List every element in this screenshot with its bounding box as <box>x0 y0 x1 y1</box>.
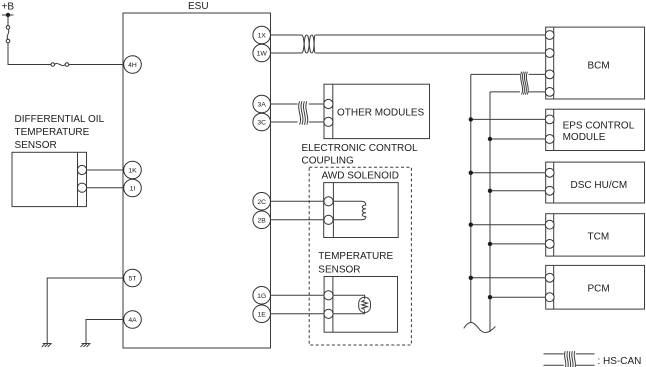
temperature sensor box <box>324 277 397 333</box>
EPS pin 1 <box>545 115 554 124</box>
wire 3C to other modules <box>271 121 298 123</box>
svg-text:1G: 1G <box>257 293 266 300</box>
DSC HU/CM box <box>546 162 645 203</box>
wire 2C to AWD solenoid <box>271 200 324 202</box>
sensor pin (to 1K) <box>77 165 86 174</box>
BCM pin 3 <box>545 70 554 79</box>
ground G2 <box>81 344 91 348</box>
HS-CAN bus line 2 <box>489 92 491 332</box>
wire fuse to pin 4H <box>69 64 124 66</box>
pin 5T <box>124 269 142 287</box>
DIFFERENTIAL OIL TEMPERATURE SENSOR label <box>15 114 105 151</box>
junction dot bus1/PCM <box>469 276 473 280</box>
temperature sensor pin (1G) <box>324 291 333 300</box>
pin 4H <box>124 56 142 74</box>
twisted pair T3 <box>521 72 529 95</box>
wire 1G to temperature sensor <box>271 294 324 296</box>
PCM box <box>546 265 645 309</box>
junction dot bus2/PCM <box>488 295 492 299</box>
junction dot bus1/TCM <box>469 223 473 227</box>
svg-text:ELECTRONIC CONTROL: ELECTRONIC CONTROL <box>302 143 419 154</box>
wire 4A to ground <box>86 320 124 344</box>
wire BCM pin3 to HS-CAN bus1 <box>529 73 546 75</box>
svg-text:1W: 1W <box>257 51 268 58</box>
thermistor RT1 <box>333 295 370 314</box>
wire sensor pin to 1K <box>87 169 124 171</box>
svg-text:4A: 4A <box>128 317 137 324</box>
HS-CAN bus line 1 <box>470 74 472 322</box>
svg-text:SENSOR: SENSOR <box>15 140 57 151</box>
wire bus2 to EPS pin <box>490 138 546 140</box>
svg-text:4H: 4H <box>128 62 137 69</box>
DSC pin 2 <box>545 186 554 195</box>
svg-text:: HS-CAN: : HS-CAN <box>598 356 642 367</box>
EPS CONTROL MODULE label <box>563 121 635 144</box>
svg-text:COUPLING: COUPLING <box>302 155 354 166</box>
wire 1E to temperature sensor <box>271 313 324 315</box>
TCM box <box>546 214 645 256</box>
TCM pin 1 <box>545 220 554 229</box>
temperature sensor pin (1E) <box>324 309 333 318</box>
svg-text:5T: 5T <box>129 276 137 283</box>
svg-text:DSC HU/CM: DSC HU/CM <box>571 180 628 191</box>
differential oil temperature sensor box <box>12 152 87 206</box>
pin 1K <box>124 161 142 179</box>
wire bus2 to DSC pin <box>490 190 546 192</box>
AWD solenoid pin (2B) <box>324 215 333 224</box>
svg-text:1K: 1K <box>128 168 137 175</box>
svg-text:1I: 1I <box>130 186 136 193</box>
OTHER MODULES box <box>324 84 430 138</box>
pin 1E <box>253 305 271 323</box>
BCM pin 2 <box>545 49 554 58</box>
PCM pin 2 <box>545 293 554 302</box>
solenoid coil L1 <box>333 201 366 220</box>
svg-text:TEMPERATURE: TEMPERATURE <box>15 127 90 138</box>
svg-text:PCM: PCM <box>588 284 610 295</box>
junction dot bus2/TCM <box>488 242 492 246</box>
svg-text:2C: 2C <box>257 199 266 206</box>
PCM pin 1 <box>545 273 554 282</box>
wire bus2 to PCM pin <box>490 296 546 298</box>
svg-text:ESU: ESU <box>188 1 209 12</box>
wire bus1 to TCM pin <box>471 224 546 226</box>
electronic control coupling dashed enclosure <box>309 167 411 345</box>
BCM pin 4 <box>545 88 554 97</box>
TEMPERATURE SENSOR label <box>318 251 393 276</box>
svg-text:SENSOR: SENSOR <box>318 265 360 276</box>
wire 3A to other modules <box>271 103 298 105</box>
wire bus1 to PCM pin <box>471 277 546 279</box>
wire BCM pin4 to HS-CAN bus2 <box>529 91 546 93</box>
junction dot bus2/DSC <box>488 189 492 193</box>
pin 2C <box>253 193 271 211</box>
junction dot bus2/EPS <box>488 137 492 141</box>
pin 4A <box>124 311 142 329</box>
bus break squiggle <box>464 322 496 332</box>
wire bus1 to EPS pin <box>471 118 546 120</box>
svg-text:3A: 3A <box>258 102 267 109</box>
junction dot +B <box>6 13 10 17</box>
svg-text:1X: 1X <box>258 33 267 40</box>
wire bus1 to DSC pin <box>471 172 546 174</box>
legend HS-CAN symbol <box>544 351 595 367</box>
svg-text:BCM: BCM <box>588 61 610 72</box>
svg-text:OTHER MODULES: OTHER MODULES <box>337 108 425 119</box>
junction dot bus1/DSC <box>469 171 473 175</box>
pin 1G <box>253 287 271 305</box>
wire 5T to ground <box>47 278 124 344</box>
AWD solenoid box <box>324 183 399 238</box>
twisted pair T2 <box>299 101 308 124</box>
svg-text:2B: 2B <box>258 217 267 224</box>
TCM pin 2 <box>545 240 554 249</box>
wire 1X to BCM <box>271 34 302 36</box>
fusible link <box>6 26 10 30</box>
svg-text:AWD SOLENOID: AWD SOLENOID <box>322 171 399 182</box>
wire bus2 to TCM pin <box>490 243 546 245</box>
BCM box <box>546 27 645 99</box>
svg-text:1E: 1E <box>258 311 267 318</box>
svg-text:TCM: TCM <box>588 231 610 242</box>
twisted pair T1 <box>302 35 316 53</box>
svg-text:+B: +B <box>2 2 15 13</box>
junction dot bus1/EPS <box>469 117 473 121</box>
pin 2B <box>253 211 271 229</box>
wire sensor pin to 1I <box>87 187 124 189</box>
svg-text:3C: 3C <box>257 120 266 127</box>
pin 1I <box>124 179 142 197</box>
wire 2B to AWD solenoid <box>271 219 324 221</box>
ELECTRONIC CONTROL COUPLING label <box>302 143 419 167</box>
pin 3C <box>253 113 271 131</box>
pin 1X <box>253 26 271 44</box>
node +B tap bar <box>2 14 14 16</box>
svg-text:EPS CONTROL: EPS CONTROL <box>563 121 635 132</box>
fuse <box>51 63 55 67</box>
wire 1W to BCM <box>271 52 302 54</box>
other modules pin b <box>324 117 333 126</box>
wire fusible link to corner <box>8 43 51 65</box>
svg-text:DIFFERENTIAL OIL: DIFFERENTIAL OIL <box>15 114 105 125</box>
svg-text:TEMPERATURE: TEMPERATURE <box>318 251 393 262</box>
EPS CONTROL MODULE box <box>546 109 645 150</box>
ground G1 <box>42 344 52 348</box>
pin 3A <box>253 95 271 113</box>
svg-text:MODULE: MODULE <box>563 132 606 143</box>
ESU box <box>123 13 271 348</box>
pin 1W <box>253 44 271 62</box>
DSC pin 1 <box>545 168 554 177</box>
EPS pin 2 <box>545 135 554 144</box>
other modules pin a <box>324 99 333 108</box>
wire +B down <box>7 15 9 26</box>
AWD solenoid pin (2C) <box>324 197 333 206</box>
BCM pin 1 <box>545 31 554 40</box>
sensor pin (to 1I) <box>77 183 86 192</box>
